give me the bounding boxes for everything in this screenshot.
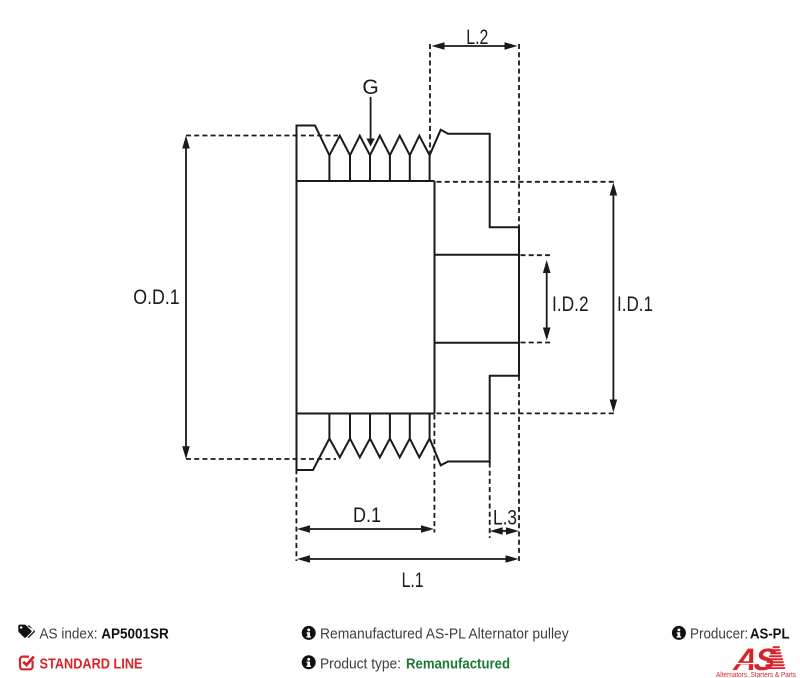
- svg-text:STANDARD LINE: STANDARD LINE: [40, 656, 143, 673]
- body bottom edge (groove base line): [297, 413, 435, 415]
- dimension I.D.1: [437, 182, 616, 414]
- svg-text:Alternators, Starters & Parts: Alternators, Starters & Parts: [716, 672, 796, 678]
- hub bore bottom edge: [435, 342, 520, 344]
- svg-text:Remanufactured: Remanufactured: [406, 656, 510, 673]
- svg-text:Product type:: Product type:: [320, 656, 401, 673]
- legend: info icon 3: [672, 626, 686, 640]
- svg-text:D.1: D.1: [353, 504, 381, 527]
- top groove slots: [329, 155, 429, 181]
- dimension L.2: [430, 44, 507, 155]
- AS-PL logo: [716, 642, 796, 678]
- body top edge (groove base line): [297, 180, 435, 182]
- svg-text:AS-PL: AS-PL: [750, 626, 790, 643]
- svg-text:Remanufactured AS-PL Alternato: Remanufactured AS-PL Alternator pulley: [320, 626, 569, 643]
- legend: red checkbox icon: [20, 657, 34, 670]
- dimension L.1: [296, 461, 507, 561]
- svg-text:L.3: L.3: [493, 507, 517, 530]
- legend: info icon 1: [302, 626, 316, 640]
- svg-text:L.2: L.2: [466, 26, 488, 49]
- svg-text:I.D.1: I.D.1: [617, 293, 653, 316]
- svg-text:AP5001SR: AP5001SR: [101, 626, 169, 643]
- svg-text:G: G: [362, 76, 378, 99]
- svg-text:AS index:: AS index:: [40, 626, 98, 643]
- svg-text:Producer:: Producer:: [690, 626, 748, 643]
- extension line x=519 (upper and lower): [518, 44, 520, 227]
- hub bore top edge: [435, 254, 520, 256]
- dimension D.1: [308, 415, 434, 533]
- legend: info icon 2: [302, 655, 316, 669]
- bottom groove slots: [329, 414, 429, 439]
- dimension L.3: [490, 463, 510, 539]
- legend: tag icon: [18, 625, 35, 638]
- body right edge: [434, 181, 436, 414]
- svg-text:I.D.2: I.D.2: [552, 293, 589, 316]
- svg-text:O.D.1: O.D.1: [133, 286, 179, 309]
- dimension O.D.1: [186, 136, 338, 460]
- pulley outer contour: [297, 126, 520, 471]
- svg-text:L.1: L.1: [402, 569, 424, 592]
- dimension I.D.2: [521, 255, 551, 342]
